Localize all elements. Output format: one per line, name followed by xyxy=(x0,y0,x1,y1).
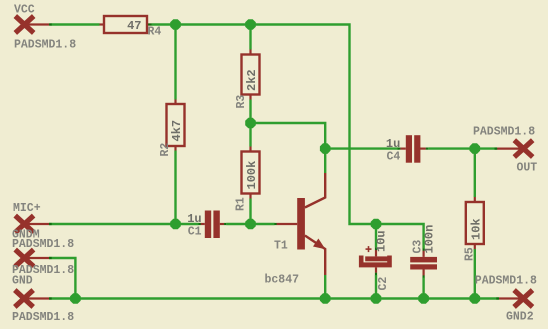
pin R2 bottom stub xyxy=(174,146,176,151)
pin GND pad stub xyxy=(23,297,49,299)
pin dot C4 right xyxy=(426,148,429,150)
pin C3 bottom stub xyxy=(423,269,425,275)
pin C1 right stub xyxy=(220,223,225,225)
svg-text:R5: R5 xyxy=(464,247,477,261)
pin MIC+ pad stub xyxy=(23,223,49,225)
pin VCC pad stub xyxy=(24,23,51,25)
wire R1 bottom lead xyxy=(249,199,251,225)
wire R5 bottom lead xyxy=(474,249,476,299)
svg-text:PADSMD1.8: PADSMD1.8 xyxy=(473,126,535,139)
capacitor C2 positive plate bar xyxy=(365,256,388,261)
junction top rail at R3 xyxy=(245,19,256,30)
resistor R5 body xyxy=(466,202,484,244)
pad GNDM X symbol xyxy=(15,250,33,267)
pin R1 bottom stub xyxy=(249,194,251,199)
pin dot OUT pad xyxy=(495,148,498,150)
wire C2 node to C3 xyxy=(376,224,424,249)
capacitor C1 right plate xyxy=(213,211,219,239)
wire MIC+ to C1 xyxy=(49,223,199,225)
junction C2 top node xyxy=(371,219,382,230)
svg-text:10k: 10k xyxy=(470,218,484,240)
junction ground at C3 xyxy=(418,293,429,304)
wire C2 top lead xyxy=(375,224,377,247)
pin T1 collector xyxy=(305,173,325,208)
svg-text:PADSMD1.8: PADSMD1.8 xyxy=(12,311,74,324)
svg-text:OUT: OUT xyxy=(517,162,538,175)
capacitor C3 bottom plate xyxy=(410,264,437,269)
svg-text:MIC+: MIC+ xyxy=(13,202,41,215)
junction C4 node xyxy=(320,143,331,154)
pin dot GND pad xyxy=(49,297,52,299)
junction MIC node xyxy=(170,219,181,230)
svg-text:C2: C2 xyxy=(377,277,390,291)
wire C4 right to OUT xyxy=(428,147,497,149)
junction top rail at R2 xyxy=(170,19,181,30)
pin dot C2 bottom xyxy=(375,273,377,275)
junction ground at C2 xyxy=(371,293,382,304)
pin T1 base stub xyxy=(277,223,298,225)
capacitor C1 left plate xyxy=(205,211,211,239)
pin GND2 pad stub xyxy=(499,297,523,299)
pin OUT pad stub xyxy=(497,148,523,150)
wire C4 left lead xyxy=(325,147,398,149)
svg-text:4k7: 4k7 xyxy=(170,120,184,142)
wire C2 bottom lead xyxy=(375,275,377,299)
svg-text:100n: 100n xyxy=(423,225,437,254)
pin GNDM pad stub xyxy=(23,257,49,259)
transistor T1 emitter arrow xyxy=(313,239,325,250)
pin R5 bottom stub xyxy=(474,244,476,249)
svg-text:R1: R1 xyxy=(235,197,248,211)
capacitor C4 left plate xyxy=(406,135,412,163)
svg-text:47: 47 xyxy=(127,19,141,33)
pin dot GND2 pad xyxy=(496,297,499,299)
pin R1 top stub xyxy=(249,147,251,152)
svg-text:PADSMD1.8: PADSMD1.8 xyxy=(475,275,537,288)
svg-text:GND2: GND2 xyxy=(506,311,534,324)
pin dot C1 right xyxy=(224,223,226,225)
svg-text:C1: C1 xyxy=(188,226,202,239)
svg-text:bc847: bc847 xyxy=(265,274,300,287)
wire C1 to base node xyxy=(226,223,274,225)
wire C3 bottom lead xyxy=(422,278,424,299)
svg-text:1u: 1u xyxy=(187,212,201,226)
svg-text:100k: 100k xyxy=(245,161,259,190)
svg-text:10u: 10u xyxy=(374,230,388,252)
junction ground at R5 xyxy=(470,293,481,304)
wire R3 top lead xyxy=(249,25,251,50)
wire VCC top rail right segment with bend down to C2 branch xyxy=(152,25,377,225)
wire R2 top lead xyxy=(174,25,176,100)
wire R5 top lead xyxy=(474,149,476,197)
wire R3 bottom lead to collector node xyxy=(249,100,251,124)
pad GND X symbol xyxy=(15,290,33,307)
pin dot C3 bottom xyxy=(423,275,425,277)
transistor T1 base bar xyxy=(297,198,305,250)
wire emitter to ground rail xyxy=(324,275,326,299)
pin C1 left stub xyxy=(201,223,205,225)
pin dot C4 left xyxy=(398,148,401,150)
pin dot R4 right xyxy=(148,23,151,25)
pad OUT X symbol xyxy=(514,140,532,157)
pin C2 top stub xyxy=(375,250,377,256)
svg-text:2k2: 2k2 xyxy=(245,69,259,91)
pin R2 top stub xyxy=(174,100,176,105)
svg-text:R3: R3 xyxy=(235,95,248,109)
pin T1 emitter xyxy=(305,236,325,276)
svg-text:R2: R2 xyxy=(159,143,172,157)
pin C4 right stub xyxy=(420,148,426,150)
wire R1 top lead xyxy=(249,123,251,147)
resistor R1 body xyxy=(242,152,260,194)
svg-text:T1: T1 xyxy=(274,240,288,253)
pad GND2 X symbol xyxy=(514,290,532,307)
junction ground at GNDM xyxy=(70,293,81,304)
svg-text:GND: GND xyxy=(12,275,33,288)
pin dot VCC pad xyxy=(49,23,52,25)
junction base node xyxy=(245,219,256,230)
junction collector node xyxy=(245,118,256,129)
pin C2 bottom stub xyxy=(375,267,377,272)
pin dot C3 top xyxy=(423,249,425,251)
pin C3 top stub xyxy=(423,251,425,257)
wire GNDM pad down to ground rail xyxy=(49,258,75,299)
capacitor C2 negative cup plate xyxy=(359,256,392,268)
resistor R3 body xyxy=(242,55,260,95)
wire ground rail xyxy=(49,297,499,299)
pin R5 top stub xyxy=(474,197,476,202)
pin dot GNDM pad xyxy=(49,257,52,259)
svg-text:R4: R4 xyxy=(148,26,162,39)
pin R4 right stub xyxy=(147,23,152,25)
capacitor C3 top plate xyxy=(410,257,437,263)
pad VCC X symbol xyxy=(15,16,33,33)
wire collector node to C4 node xyxy=(251,123,326,173)
pin dot MIC+ pad xyxy=(49,223,52,225)
wire R2 bottom lead xyxy=(174,151,176,225)
svg-text:PADSMD1.8: PADSMD1.8 xyxy=(12,238,74,251)
pin dot C1 left xyxy=(199,223,201,225)
junction OUT node xyxy=(470,143,481,154)
pin dot C2 top xyxy=(375,247,377,250)
pad MIC+ X symbol xyxy=(15,216,33,233)
pin dot T1 base xyxy=(274,223,276,225)
pin R3 bottom stub xyxy=(249,95,251,100)
pin C4 left stub xyxy=(400,148,406,150)
svg-text:VCC: VCC xyxy=(14,4,35,17)
capacitor C2 plus sign xyxy=(366,246,372,252)
resistor R2 body xyxy=(167,104,185,146)
svg-text:1u: 1u xyxy=(386,137,400,151)
pin R3 top stub xyxy=(249,50,251,55)
junction ground at emitter xyxy=(320,293,331,304)
resistor R4 body xyxy=(104,16,147,33)
capacitor C4 right plate xyxy=(414,135,420,163)
pin R4 left stub xyxy=(100,23,105,25)
svg-text:C4: C4 xyxy=(386,151,400,164)
svg-text:PADSMD1.8: PADSMD1.8 xyxy=(14,39,76,52)
wire VCC top rail left segment xyxy=(51,23,100,25)
